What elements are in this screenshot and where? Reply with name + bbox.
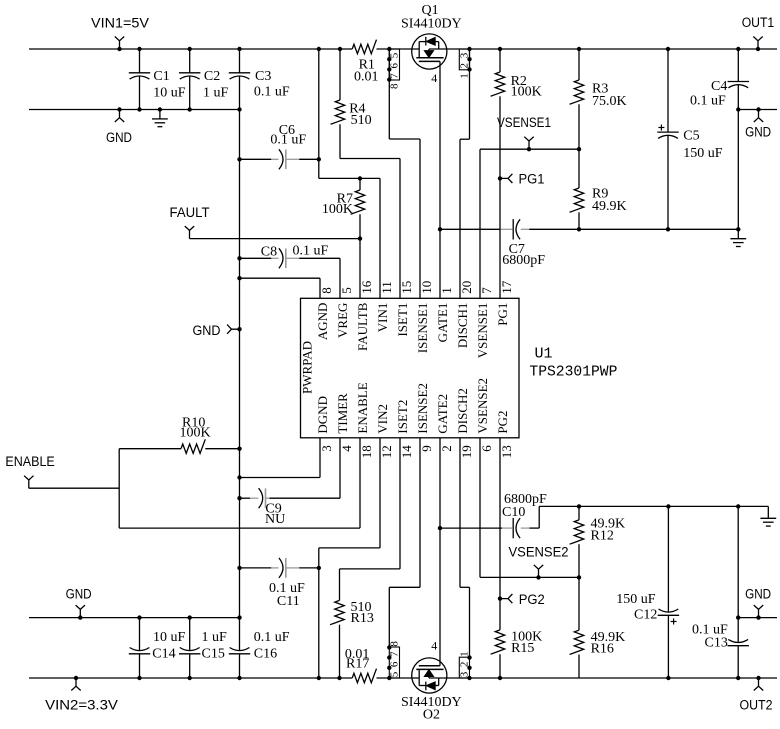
- svg-text:C4: C4: [711, 79, 727, 94]
- capacitor C10 (6800pF) on GATE2: [438, 526, 442, 530]
- wire OUT2 section ground rail y=506: [539, 505, 768, 507]
- svg-text:DISCH2: DISCH2: [455, 388, 470, 434]
- svg-text:GND: GND: [745, 587, 771, 603]
- wire FAULT to IC pin 16: [358, 236, 362, 240]
- svg-text:2: 2: [439, 445, 454, 452]
- terminal GND mid-left on bus: [237, 327, 241, 331]
- svg-text:AGND: AGND: [315, 303, 330, 341]
- svg-text:R16: R16: [591, 642, 614, 657]
- transistor Q1 SI4410DY: [412, 34, 447, 69]
- svg-text:GND: GND: [745, 125, 771, 141]
- svg-text:17: 17: [499, 280, 514, 294]
- wire ISET1: R4 to IC pin 15: [340, 158, 400, 160]
- svg-text:U1: U1: [535, 346, 553, 363]
- terminal GND bottom-left: [78, 615, 82, 619]
- svg-text:PG2: PG2: [495, 410, 510, 433]
- svg-text:13: 13: [499, 445, 514, 458]
- svg-text:ISET1: ISET1: [395, 303, 410, 337]
- capacitor C14: [139, 618, 141, 651]
- wire PG2: IC pin 13 down to R15: [499, 438, 501, 630]
- svg-text:VSENSE1: VSENSE1: [475, 303, 490, 359]
- node R4 top junction: [338, 47, 342, 51]
- wire GND2 rail: [29, 617, 240, 619]
- svg-text:PG1: PG1: [495, 303, 510, 326]
- svg-text:GND: GND: [66, 587, 92, 603]
- terminal FAULT: [185, 226, 194, 239]
- svg-text:R12: R12: [591, 529, 614, 544]
- svg-text:C2: C2: [204, 69, 220, 84]
- svg-text:VREG: VREG: [335, 303, 350, 338]
- svg-text:FAULTB: FAULTB: [355, 302, 370, 351]
- wire TIMER IC pin 4 stub: [339, 438, 341, 498]
- ground earth symbol below C4: [737, 229, 739, 238]
- Q1 drain pin box pins 5 6 7 8: [389, 49, 399, 80]
- svg-text:75.0K: 75.0K: [592, 94, 627, 109]
- svg-text:GATE2: GATE2: [435, 394, 450, 434]
- wire GATE1: Q1 gate down to IC pin 1: [439, 61, 441, 298]
- svg-text:1 uF: 1 uF: [202, 630, 228, 645]
- svg-text:1: 1: [439, 287, 454, 294]
- svg-text:16: 16: [359, 280, 374, 294]
- svg-text:VSENSE1: VSENSE1: [497, 115, 551, 131]
- capacitor C15: [189, 618, 191, 651]
- wire GND stub right of C4: [738, 109, 777, 111]
- svg-text:5: 5: [339, 287, 354, 294]
- capacitor C6 (0.1 uF): [237, 157, 241, 161]
- terminal VSENSE2: [536, 575, 540, 579]
- resistor R15: [491, 630, 505, 654]
- svg-text:GND: GND: [106, 130, 132, 146]
- capacitor C1: [139, 49, 141, 73]
- svg-text:8: 8: [319, 287, 334, 294]
- svg-text:4: 4: [339, 445, 354, 452]
- wire GATE2: IC pin 2 down to Q2 gate: [439, 438, 441, 666]
- node VSENSE2/R12/R16 junction: [577, 575, 581, 579]
- svg-text:C1: C1: [153, 69, 169, 84]
- terminal OUT2: [756, 676, 760, 680]
- svg-text:4: 4: [431, 71, 437, 85]
- svg-text:3: 3: [319, 445, 334, 452]
- svg-text:150 uF: 150 uF: [616, 592, 656, 607]
- svg-text:OUT1: OUT1: [742, 15, 775, 31]
- wire GND bus vertical: [239, 76, 241, 617]
- svg-text:ISET2: ISET2: [395, 400, 410, 434]
- svg-text:VSENSE2: VSENSE2: [509, 545, 569, 561]
- svg-text:C8: C8: [261, 245, 277, 260]
- capacitor C16 on bus: [239, 618, 241, 651]
- svg-text:0.1 uF: 0.1 uF: [270, 133, 306, 148]
- capacitor C13 (0.1 uF): [737, 618, 739, 642]
- svg-text:0.1 uF: 0.1 uF: [254, 85, 290, 100]
- wire VIN2 rail: [29, 677, 352, 679]
- svg-text:VIN2: VIN2: [375, 404, 390, 434]
- svg-text:R13: R13: [351, 611, 374, 626]
- resistor R17: [352, 669, 376, 683]
- wire ENABLE to IC pin 18: [119, 527, 360, 529]
- svg-text:R15: R15: [511, 641, 534, 656]
- capacitor C7 (6800pF): [512, 219, 514, 239]
- wire DISCH1: Q1 source down to IC pin 20: [469, 49, 471, 139]
- resistor R2: [498, 47, 502, 51]
- svg-text:OUT2: OUT2: [740, 697, 773, 713]
- terminal VIN2: [74, 676, 78, 680]
- terminal OUT1: [756, 47, 760, 51]
- wire VSENSE2 to IC pin 6: [479, 438, 481, 578]
- wire DISCH2: IC pin 19 down to Q2 source: [459, 438, 461, 588]
- wire VIN2 net: IC pin 12 down and to rail: [379, 438, 381, 548]
- svg-text:C5: C5: [683, 129, 699, 144]
- svg-text:GATE1: GATE1: [435, 303, 450, 343]
- capacitor C5 (150 uF polarized): [666, 47, 670, 51]
- svg-text:VIN2=3.3V: VIN2=3.3V: [45, 697, 118, 713]
- svg-text:TIMER: TIMER: [335, 393, 350, 434]
- svg-text:100K: 100K: [511, 85, 542, 100]
- svg-text:C10: C10: [502, 505, 525, 520]
- wire VSENSE2 horizontal: [480, 576, 579, 578]
- svg-text:11: 11: [379, 281, 394, 294]
- wire ENABLE terminal lead: [29, 487, 119, 489]
- terminal GND right: [756, 107, 760, 111]
- svg-text:SI4410DY: SI4410DY: [401, 17, 462, 32]
- svg-text:12: 12: [379, 445, 394, 458]
- svg-text:0.1 uF: 0.1 uF: [690, 94, 726, 109]
- svg-text:ENABLE: ENABLE: [355, 382, 370, 433]
- svg-text:DISCH1: DISCH1: [455, 303, 470, 349]
- resistor R1: [352, 40, 376, 54]
- svg-text:C14: C14: [152, 647, 175, 662]
- svg-text:ISENSE2: ISENSE2: [415, 383, 430, 434]
- resistor R12: [578, 506, 580, 520]
- wire VSENSE1 to IC pin 7: [479, 149, 481, 298]
- svg-text:R17: R17: [346, 657, 369, 672]
- op-amp U1 TPS2301PWP body: [301, 298, 520, 438]
- svg-text:C3: C3: [255, 69, 271, 84]
- wire GND stub bottom right: [738, 617, 777, 619]
- capacitor C8 (0.1 uF) to VREG pin 5: [237, 256, 241, 260]
- resistor R13: [399, 438, 401, 569]
- svg-text:C16: C16: [254, 647, 277, 662]
- svg-text:20: 20: [459, 281, 474, 294]
- node PG2 terminal: [498, 596, 502, 600]
- Q2 source pin box pins 1 2 3: [459, 657, 469, 678]
- svg-text:0.1 uF: 0.1 uF: [293, 244, 329, 259]
- wire ISENSE2: IC pin 9 down to Q2 drain: [419, 438, 421, 588]
- junction dots on y=229 rail: [577, 227, 581, 231]
- wire ISENSE1: Q1 drain down to IC pin 10: [388, 49, 390, 139]
- svg-text:C13: C13: [705, 636, 728, 651]
- terminal VIN1: [117, 47, 121, 51]
- svg-text:VSENSE2: VSENSE2: [475, 378, 490, 434]
- wire VIN1 net to IC pin 11: [317, 47, 321, 51]
- svg-text:0.01: 0.01: [354, 70, 379, 85]
- node PG1 terminal: [498, 176, 502, 180]
- svg-text:TPS2301PWP: TPS2301PWP: [529, 364, 617, 381]
- svg-text:C12: C12: [634, 608, 657, 623]
- svg-text:VIN1=5V: VIN1=5V: [91, 16, 150, 32]
- terminal VSENSE1: [527, 147, 531, 151]
- resistor R10: [237, 447, 241, 451]
- svg-text:10 uF: 10 uF: [153, 86, 186, 101]
- svg-text:PG2: PG2: [519, 592, 545, 608]
- svg-text:19: 19: [459, 445, 474, 458]
- wire AGND to IC pin 8: [237, 276, 241, 280]
- capacitor C9 (NU) on TIMER: [237, 496, 241, 500]
- svg-text:15: 15: [399, 281, 414, 294]
- svg-text:C11: C11: [277, 594, 300, 609]
- svg-text:7: 7: [479, 287, 494, 294]
- svg-text:PWRPAD: PWRPAD: [300, 341, 315, 394]
- svg-text:1: 1: [459, 73, 471, 79]
- ground earth symbol top-left: [158, 107, 162, 111]
- capacitor C11 (0.1 uF): [237, 566, 241, 570]
- wire C10 up to OUT2 ground rail: [538, 506, 540, 528]
- svg-text:49.9K: 49.9K: [592, 199, 627, 214]
- wire GND1 rail: [29, 109, 240, 111]
- svg-text:1 uF: 1 uF: [203, 86, 229, 101]
- capacitor C12 (150 uF polarized): [667, 506, 669, 611]
- ground earth symbol top of OUT2 section: [767, 506, 769, 518]
- resistor R7: [358, 176, 362, 180]
- capacitor C2: [189, 49, 191, 73]
- terminal GND bottom right: [756, 615, 760, 619]
- wire VSENSE1 horizontal: [480, 148, 579, 150]
- svg-text:10: 10: [419, 281, 434, 294]
- node VSENSE1/R3/R9 junction: [577, 147, 581, 151]
- junction dots on y=506 rail: [577, 504, 581, 508]
- wire VIN1 5V top rail: [29, 48, 352, 50]
- svg-text:10 uF: 10 uF: [153, 630, 186, 645]
- svg-text:PG1: PG1: [519, 172, 545, 188]
- capacitor C3 on GND bus: [239, 49, 241, 73]
- resistor R4: [339, 49, 341, 100]
- svg-text:14: 14: [399, 445, 414, 459]
- Q2 drain pin box pins 5 6 7 8: [389, 647, 399, 678]
- svg-text:8: 8: [389, 83, 401, 89]
- svg-text:DGND: DGND: [315, 396, 330, 434]
- svg-text:ENABLE: ENABLE: [5, 454, 54, 470]
- svg-text:6800pF: 6800pF: [502, 253, 545, 268]
- svg-text:C15: C15: [202, 647, 225, 662]
- svg-text:18: 18: [359, 445, 374, 458]
- resistor R9: [578, 149, 580, 188]
- resistor R3: [577, 47, 581, 51]
- terminal ENABLE: [24, 476, 33, 489]
- wire PG1: R2 down to IC pin 17: [499, 178, 501, 298]
- svg-text:150 uF: 150 uF: [683, 146, 723, 161]
- resistor R16: [578, 577, 580, 630]
- wire OUT1 section ground rail y=229: [440, 228, 501, 230]
- capacitor C4 (0.1 uF): [736, 47, 740, 51]
- node GATE1/C7 junction: [438, 227, 442, 231]
- svg-text:NU: NU: [265, 512, 285, 527]
- terminal GND top-left: [117, 107, 121, 111]
- svg-text:100K: 100K: [180, 426, 211, 441]
- svg-text:GND: GND: [193, 323, 221, 339]
- svg-text:VIN1: VIN1: [375, 303, 390, 333]
- svg-text:9: 9: [419, 445, 434, 452]
- wire ENABLE vertical: [118, 449, 120, 528]
- svg-text:FAULT: FAULT: [170, 205, 210, 221]
- wire DGND IC pin 3 to bus: [237, 475, 241, 479]
- svg-text:ISENSE1: ISENSE1: [415, 303, 430, 354]
- transistor Q2 SI4410DY: [412, 658, 447, 693]
- svg-text:0.1 uF: 0.1 uF: [254, 630, 290, 645]
- node R1 right / Q1 drain junction: [387, 47, 391, 51]
- svg-text:4: 4: [431, 639, 437, 653]
- svg-text:6: 6: [479, 445, 494, 452]
- Q1 source pin box pins 3 2 1: [459, 49, 469, 70]
- svg-text:510: 510: [351, 113, 372, 128]
- svg-text:100K: 100K: [322, 202, 353, 217]
- svg-text:O2: O2: [423, 708, 440, 723]
